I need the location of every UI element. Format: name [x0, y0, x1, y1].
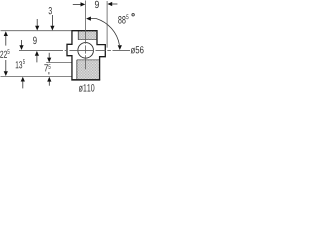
dim 13.5 arrow up [21, 77, 25, 82]
dim 3 text [49, 7, 52, 14]
body bottom edge thick [71, 79, 100, 81]
angle 88.5 arrow down [118, 45, 122, 50]
extension line mid L3 [46, 62, 71, 64]
dim 7.5 arrow down [47, 58, 51, 63]
top band inner boundary line [77, 31, 79, 40]
dim 3 leader [51, 15, 53, 26]
angle 88.5 arc [91, 19, 120, 45]
dim 13.5 arrow down [19, 45, 23, 50]
dim 3 arrow down [50, 26, 54, 31]
side port circle [78, 43, 94, 59]
dim 9 top tail left [73, 3, 81, 5]
dim 9 left leader top [36, 19, 38, 26]
dim 22.5 sup [7, 49, 9, 54]
extension line right vertical [106, 1, 108, 48]
dim 13.5 leader bottom [22, 81, 24, 88]
bottom socket hatch top line [77, 59, 100, 61]
top band hatch bottom line [78, 39, 97, 41]
dim 9 left arrow up [35, 51, 39, 56]
dim 22.5 arrow down [4, 71, 8, 76]
dim 13.5 leader top [21, 40, 23, 46]
dim 22.5 arrow up [4, 31, 8, 36]
dim 9 left leader bottom [36, 56, 38, 63]
dim 7.5 tick [48, 72, 50, 74]
diameter 110 text [79, 84, 95, 92]
angle 88.5 arrow left-pointing [86, 17, 91, 21]
bottom socket inner boundary line [76, 60, 78, 80]
dim 22.5 line lower [5, 60, 7, 71]
dim 9 top text [95, 1, 99, 8]
angle 88.5 degree symbol [132, 14, 134, 16]
dim 9 top arrow left-pointing [107, 2, 112, 6]
dim 9 left text [33, 37, 37, 45]
diameter 56 text [131, 46, 144, 53]
dim 7.5 leader bottom [48, 81, 50, 85]
centerline vertical [85, 1, 87, 70]
dim 13.5 text [16, 61, 22, 68]
dim 22.5 line upper [5, 36, 7, 46]
dim 9 left arrow down [35, 26, 39, 31]
extension line bottom L4 [1, 75, 72, 77]
angle 88.5 sup [126, 14, 128, 19]
dim 7.5 leader top [48, 53, 50, 58]
dim 13.5 sup [23, 59, 25, 64]
dim 7.5 sup [48, 64, 50, 69]
dim 9 top tail right [112, 3, 118, 5]
dim 7.5 arrow up [47, 77, 51, 82]
angle 88.5 text [118, 16, 125, 24]
extension line top L1 [1, 30, 72, 32]
hatch top band [79, 31, 97, 40]
hatch bottom socket [77, 60, 99, 79]
centerline horizontal [19, 49, 130, 51]
dim 22.5 text [0, 51, 7, 58]
dim 7.5 text [44, 64, 48, 71]
body outline [67, 31, 105, 80]
dim 9 top arrow right-pointing [81, 2, 86, 6]
